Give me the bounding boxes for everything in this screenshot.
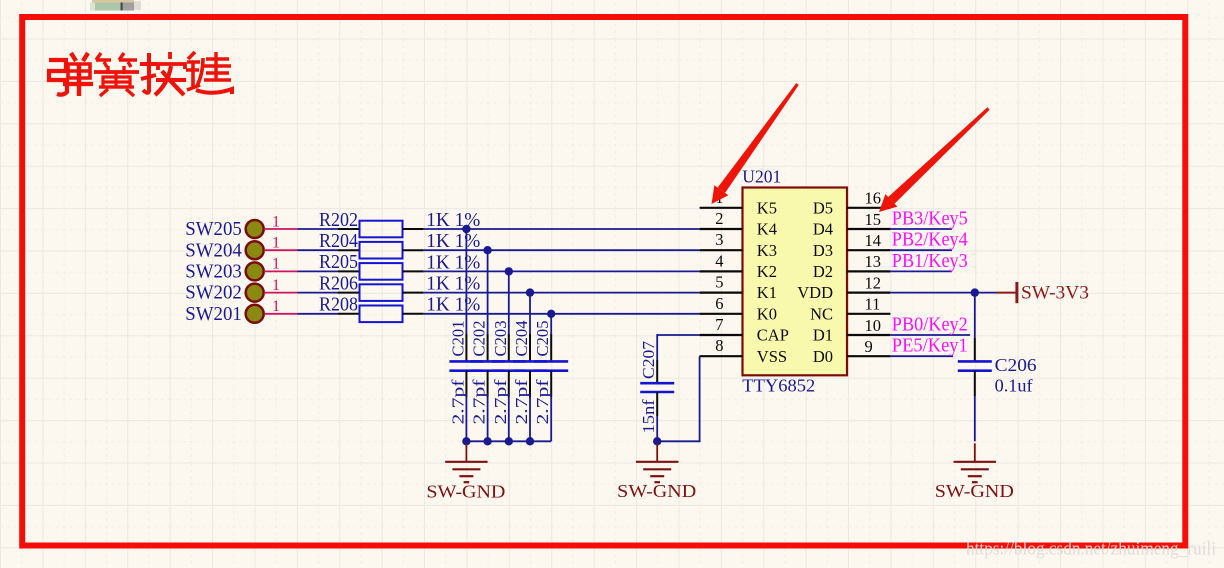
junction node on gnd bus x=509: [505, 437, 513, 445]
annotation arrow 2 (points to pin 15): [888, 107, 989, 203]
svg-text:10: 10: [865, 316, 882, 335]
ground symbol SW-GND (left, under C201 bank): [445, 443, 487, 482]
svg-text:11: 11: [865, 295, 881, 314]
wire VSS riser vertical: [699, 356, 701, 442]
capacitor C206 bottom pin: [974, 371, 976, 396]
U201 pin 14 stub: [847, 249, 890, 251]
capacitor C203 bottom pin: [508, 371, 510, 397]
wire net PB0/Key2: [890, 334, 970, 336]
svg-text:D3: D3: [813, 241, 833, 260]
resistor R204 left pin: [338, 249, 360, 251]
svg-text:SW202: SW202: [185, 282, 242, 304]
annotation arrow 1 (points to pin 1): [718, 83, 799, 193]
U201 pin 7 stub: [700, 334, 743, 336]
svg-text:K1: K1: [757, 283, 777, 302]
resistor R205 right pin: [403, 270, 424, 272]
svg-text:1: 1: [272, 213, 280, 230]
svg-text:D5: D5: [813, 198, 833, 217]
svg-text:14: 14: [865, 231, 882, 250]
svg-text:R208: R208: [319, 294, 358, 316]
svg-text:SW-GND: SW-GND: [426, 482, 505, 502]
resistor R208 body: [360, 306, 403, 323]
svg-text:7: 7: [715, 315, 723, 334]
svg-text:1: 1: [272, 298, 280, 315]
junction node at C202 column: [483, 246, 491, 254]
wire net PB1/Key3: [890, 270, 952, 272]
gnd bus wire under C201-C205: [466, 440, 551, 442]
svg-text:PB1/Key3: PB1/Key3: [892, 251, 968, 272]
svg-text:PB2/Key4: PB2/Key4: [892, 230, 968, 251]
U201 pin 3 stub: [700, 249, 743, 251]
U201 pin 16 stub: [847, 207, 890, 209]
svg-text:3: 3: [715, 230, 723, 249]
svg-text:CAP: CAP: [757, 326, 789, 345]
capacitor C201 bottom pin: [465, 371, 467, 397]
junction node VDD/C206: [971, 288, 979, 296]
svg-text:4: 4: [715, 251, 723, 270]
wire R206 (switch to resistor): [298, 292, 339, 294]
resistor R202 body: [360, 221, 403, 238]
svg-text:12: 12: [865, 273, 882, 292]
capacitor C206 top pin: [974, 338, 976, 361]
wire net PB2/Key4: [890, 249, 952, 251]
capacitor C202 top pin: [487, 334, 489, 362]
svg-text:2.7pf: 2.7pf: [491, 379, 510, 424]
svg-text:9: 9: [865, 337, 873, 356]
capacitor C203 plates: [492, 360, 526, 363]
svg-text:R204: R204: [319, 230, 358, 252]
wire C203 to gnd bus: [508, 397, 510, 441]
wire R202 to U201: [424, 228, 700, 230]
capacitor C205 plates: [534, 360, 568, 363]
junction node gnd bus left end: [462, 437, 470, 445]
svg-text:1K 1%: 1K 1%: [426, 294, 480, 316]
wire R204 (switch to resistor): [298, 249, 339, 251]
svg-text:C205: C205: [533, 321, 552, 357]
switch SW205 pad circle: [246, 220, 264, 238]
resistor R208 right pin: [403, 313, 424, 315]
resistor R206 right pin: [403, 292, 424, 294]
svg-text:D1: D1: [813, 326, 833, 345]
wire junction down to C204: [529, 293, 531, 334]
capacitor C202 plates: [471, 360, 505, 363]
svg-text:2.7pf: 2.7pf: [470, 379, 489, 424]
svg-text:NC: NC: [810, 304, 833, 323]
junction node at C204 column: [526, 288, 534, 296]
svg-text:K2: K2: [757, 262, 777, 281]
junction node at C201 column: [462, 225, 470, 233]
switch SW204 pin 1 wire: [264, 249, 297, 251]
wire junction down to C201: [465, 229, 467, 334]
svg-text:D2: D2: [813, 262, 833, 281]
svg-text:PE5/Key1: PE5/Key1: [892, 336, 968, 357]
wire C206 to ground: [974, 396, 976, 441]
capacitor C201 top pin: [465, 334, 467, 362]
switch SW203 pad circle: [246, 262, 264, 280]
U201 pin 5 stub: [700, 292, 743, 294]
wire C201 to gnd bus: [465, 397, 467, 441]
wire R205 to U201: [424, 270, 700, 272]
svg-text:2.7pf: 2.7pf: [533, 379, 552, 424]
svg-text:C201: C201: [448, 321, 467, 357]
resistor R205 body: [360, 263, 403, 280]
svg-text:1K 1%: 1K 1%: [426, 251, 480, 273]
wire C207 to gnd junction: [656, 416, 658, 441]
svg-text:15: 15: [865, 210, 882, 229]
wire junction down to C206: [974, 293, 976, 338]
junction node C207/VSS/gnd: [653, 437, 661, 445]
switch SW201 pad circle: [246, 305, 264, 323]
capacitor C204 plates: [513, 360, 547, 363]
switch SW201 pin 1 wire: [264, 313, 297, 315]
svg-text:8: 8: [715, 336, 723, 355]
U201 pin 6 stub: [700, 313, 743, 315]
svg-text:C207: C207: [639, 340, 658, 379]
op IC U201 body: [743, 188, 848, 376]
U201 pin 11 stub: [847, 313, 890, 315]
wire R208 to U201: [424, 313, 700, 315]
svg-text:U201: U201: [742, 166, 781, 186]
svg-text:C206: C206: [995, 355, 1037, 375]
svg-text:R206: R206: [319, 272, 358, 294]
svg-text:1K 1%: 1K 1%: [426, 273, 480, 295]
wire C207 top vertical: [656, 334, 658, 360]
svg-text:SW-3V3: SW-3V3: [1021, 283, 1089, 303]
wire R204 to U201: [424, 249, 700, 251]
svg-text:R205: R205: [319, 251, 358, 273]
svg-text:1K 1%: 1K 1%: [426, 209, 480, 231]
capacitor C207 top pin: [656, 360, 658, 383]
wire junction to VSS riser: [657, 440, 699, 442]
svg-text:D4: D4: [813, 220, 833, 239]
svg-text:5: 5: [715, 273, 723, 292]
junction node on gnd bus x=530: [526, 437, 534, 445]
U201 pin 4 stub: [700, 270, 743, 272]
svg-text:SW-GND: SW-GND: [617, 481, 696, 501]
junction node on gnd bus x=488: [483, 437, 491, 445]
svg-text:SW201: SW201: [185, 303, 242, 325]
switch SW202 pin 1 wire: [264, 292, 297, 294]
resistor R202 right pin: [403, 228, 424, 230]
svg-text:TTY6852: TTY6852: [742, 376, 815, 396]
title text 弹簧按键 (drawn as vector strokes): [49, 52, 232, 96]
wire C204 to gnd bus: [529, 397, 531, 441]
U201 pin 12 stub: [847, 292, 890, 294]
svg-text:2: 2: [715, 209, 723, 228]
svg-text:C202: C202: [470, 321, 489, 357]
capacitor C206 plates: [958, 360, 992, 363]
power port SW-3V3: [996, 282, 1017, 303]
switch SW203 pin 1 wire: [264, 270, 297, 272]
svg-text:R202: R202: [319, 209, 358, 231]
svg-text:D0: D0: [813, 347, 833, 366]
svg-text:1K 1%: 1K 1%: [426, 230, 480, 252]
switch SW202 pad circle: [246, 284, 264, 302]
capacitor C205 bottom pin: [550, 371, 552, 397]
U201 pin 8 stub: [700, 355, 743, 357]
svg-text:0.1uf: 0.1uf: [995, 376, 1033, 396]
svg-text:SW-GND: SW-GND: [935, 481, 1014, 501]
svg-text:6: 6: [715, 294, 723, 313]
svg-text:K3: K3: [757, 241, 777, 260]
resistor R204 body: [360, 242, 403, 259]
junction node at C203 column: [505, 267, 513, 275]
wire junction down to C203: [508, 271, 510, 333]
svg-text:K0: K0: [757, 304, 777, 323]
svg-text:C204: C204: [512, 320, 531, 356]
wire U201 pin7 CAP to C207: [657, 334, 699, 336]
resistor R204 right pin: [403, 249, 424, 251]
svg-text:1: 1: [272, 277, 280, 294]
U201 pin 10 stub: [847, 334, 890, 336]
U201 pin 15 stub: [847, 228, 890, 230]
capacitor C202 bottom pin: [487, 371, 489, 397]
wire net PB3/Key5: [890, 228, 952, 230]
svg-text:PB0/Key2: PB0/Key2: [892, 314, 968, 335]
resistor R208 left pin: [338, 313, 360, 315]
capacitor C204 bottom pin: [529, 371, 531, 397]
toolbar icon fragment top-left: [90, 0, 141, 11]
wire R205 (switch to resistor): [298, 270, 339, 272]
capacitor C205 top pin: [550, 334, 552, 362]
wire R202 (switch to resistor): [298, 228, 339, 230]
svg-text:VDD: VDD: [797, 283, 833, 302]
ground symbol SW-GND (middle, under C207): [636, 443, 678, 482]
svg-text:2.7pf: 2.7pf: [448, 379, 467, 424]
U201 pin 1 stub: [700, 207, 743, 209]
svg-text:16: 16: [865, 189, 882, 208]
svg-text:https://blog.csdn.net/zhuimeng: https://blog.csdn.net/zhuimeng_ruili: [966, 539, 1216, 560]
svg-text:SW204: SW204: [185, 239, 242, 261]
capacitor C201 plates: [449, 360, 483, 363]
wire R206 to U201: [424, 292, 700, 294]
switch SW204 pad circle: [246, 241, 264, 259]
svg-text:2.7pf: 2.7pf: [512, 379, 531, 424]
wire C205 to gnd bus: [550, 397, 552, 441]
svg-text:K4: K4: [757, 220, 777, 239]
capacitor C207 plates: [640, 382, 674, 385]
U201 pin 13 stub: [847, 270, 890, 272]
wire C202 to gnd bus: [487, 397, 489, 441]
resistor R206 left pin: [338, 292, 360, 294]
U201 pin 9 stub: [847, 355, 890, 357]
svg-text:1: 1: [272, 256, 280, 273]
wire net PE5/Key1: [890, 355, 953, 357]
wire R208 (switch to resistor): [298, 313, 339, 315]
svg-text:K5: K5: [757, 198, 777, 217]
resistor R206 body: [360, 284, 403, 301]
svg-text:SW203: SW203: [185, 261, 242, 283]
resistor R205 left pin: [338, 270, 360, 272]
switch SW205 pin 1 wire: [264, 228, 297, 230]
ground symbol SW-GND (right, under C206): [954, 443, 996, 482]
capacitor C204 top pin: [529, 334, 531, 362]
wire VDD (pin 12) to power: [890, 292, 996, 294]
capacitor C203 top pin: [508, 334, 510, 362]
svg-text:1: 1: [272, 235, 280, 252]
svg-text:15nf: 15nf: [639, 399, 658, 433]
svg-text:VSS: VSS: [757, 347, 787, 366]
svg-text:13: 13: [865, 252, 882, 271]
svg-text:C203: C203: [491, 321, 510, 357]
resistor R202 left pin: [338, 228, 360, 230]
wire junction down to C205: [550, 314, 552, 334]
U201 pin 2 stub: [700, 228, 743, 230]
svg-text:PB3/Key5: PB3/Key5: [892, 208, 968, 229]
junction node at C205 column: [547, 310, 555, 318]
svg-text:SW205: SW205: [185, 218, 242, 240]
wire junction down to C202: [487, 250, 489, 333]
capacitor C207 bottom pin: [656, 392, 658, 416]
